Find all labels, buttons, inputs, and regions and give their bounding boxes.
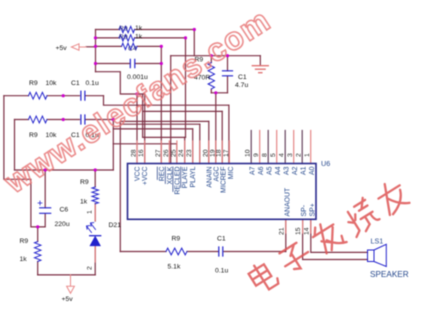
speaker LS1 (368, 244, 387, 266)
wire row A mic: left vertical and bottom L (4, 96, 45, 227)
wire ANAIN to ANAOUT tie vertical (119, 121, 121, 251)
svg-text:18: 18 (216, 149, 223, 157)
wire row A horizontals (4, 95, 104, 97)
svg-text:PLAYE: PLAYE (182, 166, 189, 188)
resistor R9 470R (208, 63, 214, 89)
svg-text:R9: R9 (172, 236, 181, 243)
svg-text:4.7u: 4.7u (235, 82, 248, 89)
capacitor C1 0.1u row A (81, 91, 85, 100)
svg-text:1k: 1k (135, 33, 143, 40)
svg-text:U6: U6 (321, 159, 330, 168)
wire ANAIN feed from ANAOUT tie (120, 120, 209, 122)
svg-text:14: 14 (303, 227, 310, 235)
power symbol +5v bottom (62, 275, 75, 303)
svg-text:C4: C4 (128, 46, 137, 53)
svg-text:20: 20 (202, 149, 209, 157)
wire LED chain top (94, 170, 96, 187)
capacitor C1 4.7u (223, 71, 233, 76)
pin numbers top row (131, 149, 312, 157)
svg-text:A1: A1 (301, 166, 308, 175)
wire row B anain: left vertical (14, 120, 16, 171)
svg-text:2: 2 (296, 153, 303, 157)
wire pin15 to speaker (303, 219, 368, 259)
svg-text:1k: 1k (80, 199, 88, 206)
svg-text:1k: 1k (20, 256, 28, 263)
pin numbers bottom row (278, 227, 310, 235)
wire row2 1k pullup horizontals (96, 37, 186, 39)
wire pin26 vertical XCLK (170, 56, 172, 164)
svg-text:23: 23 (186, 149, 193, 157)
capacitor C1 0.1u row B (81, 115, 85, 124)
wire R470 top stub (210, 56, 212, 63)
svg-text:5: 5 (270, 153, 277, 157)
svg-text:ANAOUT: ANAOUT (284, 187, 291, 217)
wire row3 horizontals (96, 45, 162, 47)
svg-text:C1: C1 (217, 236, 226, 243)
svg-text:24: 24 (178, 149, 185, 157)
resistor R9 1k left (35, 242, 41, 262)
power symbol +5v top-left (56, 44, 87, 52)
wire pin24 vertical (184, 137, 186, 163)
wire riser feeding MICREF/PLAYE fans (142, 94, 144, 137)
wire R9 1k left bottom stub (37, 262, 39, 275)
wire pin22 vertical (199, 124, 201, 163)
pin stubs for LED D21 (94, 204, 96, 262)
svg-text:1: 1 (304, 153, 311, 157)
IC pin labels bottom (284, 187, 316, 217)
svg-text:R9: R9 (80, 179, 89, 186)
svg-text:SP-: SP- (301, 205, 308, 217)
wire AGC bottom join (211, 92, 227, 94)
svg-text:10k: 10k (46, 80, 58, 87)
wire PLAYL fan (113, 128, 192, 130)
resistor R9 1k LED chain (92, 187, 98, 204)
resistor R9 5.1k (166, 248, 187, 255)
svg-text:R9: R9 (119, 34, 128, 41)
resistor row3 (122, 43, 138, 49)
wire R9 1k left top stub (37, 227, 39, 242)
svg-text:3: 3 (287, 153, 294, 157)
wire ground row (171, 55, 261, 57)
wire pin19 vertical (215, 93, 217, 164)
svg-text:VCC: VCC (135, 166, 142, 181)
svg-text:21: 21 (278, 227, 285, 235)
svg-text:8: 8 (262, 153, 269, 157)
wire row2-1k right vertical to PLAYE fan (185, 38, 187, 137)
wire RECLED fan (113, 143, 177, 145)
wire gnd symbol stub (259, 56, 261, 66)
svg-text:16: 16 (138, 149, 145, 157)
resistor R9 10k row B (29, 116, 47, 123)
wire pin14 to speaker (311, 219, 368, 252)
svg-text:1: 1 (87, 210, 94, 214)
svg-text:MICREF: MICREF (221, 167, 228, 193)
wire pin25 vertical (176, 144, 178, 164)
svg-text:4: 4 (279, 153, 286, 157)
wire bottom +5v bus (38, 274, 95, 276)
wire C1 4.7u bottom stub (227, 76, 229, 93)
wire MICREF fan (143, 110, 223, 112)
capacitor C1 0.1u bottom (219, 247, 223, 256)
IC pin labels top (135, 166, 317, 194)
svg-text:C1: C1 (238, 74, 247, 81)
svg-text:C6: C6 (60, 207, 69, 214)
svg-text:A3: A3 (284, 166, 291, 175)
svg-text:AGC: AGC (213, 166, 220, 181)
wire 0.001u cap row (96, 63, 162, 65)
svg-text:A0: A0 (309, 166, 316, 175)
svg-text:A5: A5 (267, 166, 274, 175)
svg-text:10: 10 (245, 149, 252, 157)
svg-text:17: 17 (223, 149, 230, 157)
svg-text:REC: REC (159, 166, 166, 181)
svg-text:2: 2 (87, 266, 94, 270)
svg-text:26: 26 (163, 149, 170, 157)
svg-text:R9: R9 (119, 26, 128, 33)
svg-text:+VCC: +VCC (142, 166, 149, 185)
capacitor C6 220u (38, 201, 51, 213)
wire R470 bottom stub (210, 89, 212, 93)
wire pin23 vertical (192, 129, 194, 164)
svg-text:A4: A4 (275, 166, 282, 175)
svg-text:15: 15 (295, 227, 302, 235)
svg-text:ANAIN: ANAIN (206, 166, 213, 187)
svg-text:SPEAKER: SPEAKER (370, 270, 409, 279)
svg-text:+5v: +5v (62, 296, 74, 303)
wire pin28 vertical (136, 94, 138, 164)
wire pin20 vertical ANAIN (208, 121, 210, 163)
svg-text:R9: R9 (29, 132, 38, 139)
svg-text:0.1u: 0.1u (215, 268, 228, 275)
wire row B horizontals (15, 119, 114, 121)
LED D21 (87, 223, 101, 246)
svg-text:1k: 1k (135, 25, 143, 32)
wire pin21 vertical (285, 219, 287, 251)
svg-text:PLAYL: PLAYL (190, 166, 197, 187)
svg-text:MIC: MIC (228, 166, 235, 179)
wire ANAOUT row (120, 251, 285, 253)
ground symbol (252, 66, 268, 73)
svg-text:25: 25 (170, 149, 177, 157)
svg-text:D21: D21 (109, 222, 122, 229)
svg-text:SP+: SP+ (309, 203, 316, 216)
pin stubs salmon (95, 131, 311, 263)
wire bias bus y170 (15, 169, 114, 171)
wire pin16 vertical (144, 94, 146, 164)
capacitor 0.001u (130, 59, 135, 67)
svg-text:A6: A6 (258, 166, 265, 175)
watermark chinese dianzifashaoyou drawn as paths (246, 178, 410, 296)
wire pin18 vertical (221, 111, 223, 163)
svg-text:28: 28 (131, 149, 138, 157)
wire riser x113 to LED bus (112, 120, 114, 171)
wire C1 4.7u top stub (227, 56, 229, 71)
svg-text:R9: R9 (29, 80, 38, 87)
wire +5v arrow feed (86, 46, 96, 48)
wire pin27 vertical from row3/0.001u (160, 46, 162, 163)
svg-text:27: 27 (155, 149, 162, 157)
wire C6 bottom stub (44, 214, 46, 227)
svg-text:0.1u: 0.1u (86, 80, 99, 87)
wire VCC feed to pins 28/16 (96, 72, 145, 94)
wire C6 top stub (44, 170, 46, 208)
IC U6 ISD1420 box (128, 164, 317, 220)
svg-text:5.1k: 5.1k (168, 264, 181, 271)
overbars for active-low pins (157, 167, 180, 192)
svg-text:R9: R9 (20, 238, 29, 245)
svg-text:C1: C1 (71, 80, 80, 87)
wire +5V rail vertical (95, 30, 97, 72)
resistor R9 10k row A (29, 92, 47, 99)
wire row1 1k pullup horizontals (96, 29, 195, 31)
svg-text:9: 9 (253, 153, 260, 157)
resistor R1k row2 (119, 35, 135, 41)
resistor R1k row1 (119, 26, 135, 32)
wire row1-1k right vertical to gnd row (193, 30, 195, 56)
wire pin17 vertical MIC (228, 105, 230, 163)
wire row A jog down to MIC fan (104, 96, 229, 106)
svg-text:A2: A2 (292, 166, 299, 175)
wire PLAYE fan (143, 136, 186, 138)
wire pin22 fan (120, 123, 200, 125)
svg-text:A7: A7 (250, 166, 257, 175)
svg-text:220u: 220u (55, 221, 70, 228)
wire LED chain mid and bottom (94, 204, 96, 275)
svg-text:+5v: +5v (56, 45, 68, 52)
svg-text:LS1: LS1 (371, 237, 384, 246)
